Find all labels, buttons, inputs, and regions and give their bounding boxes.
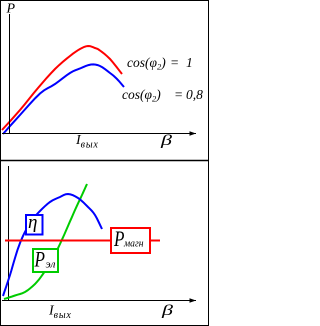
separator line between charts (0, 160, 209, 162)
svg-text:эл: эл (46, 259, 56, 271)
box Pmagn (111, 228, 150, 253)
y-axis (top chart) (9, 14, 11, 133)
box eta (26, 215, 43, 235)
curve green Pel (bottom chart) (4, 184, 87, 299)
frame border (1, 1, 209, 326)
svg-text:P: P (113, 227, 124, 252)
svg-text:=: = (170, 55, 179, 70)
x-axis arrow (bottom chart) (190, 298, 197, 303)
svg-text:1: 1 (186, 55, 193, 70)
svg-text:магн: магн (123, 239, 143, 250)
svg-text:cos(φ2): cos(φ2) (127, 55, 166, 72)
red line Pmagn (5, 240, 160, 242)
x-axis (bottom chart) (2, 300, 196, 302)
x-axis arrow (top chart) (190, 131, 197, 136)
x-axis (top chart) (2, 133, 196, 135)
svg-text:β: β (161, 303, 174, 319)
svg-text:P: P (6, 2, 16, 17)
y-axis (bottom chart) (8, 166, 10, 300)
curve red cos=1 (top chart) (2, 46, 122, 130)
svg-text:0,8: 0,8 (186, 87, 203, 102)
box Pel (33, 249, 58, 272)
svg-text:cos(φ2): cos(φ2) (122, 87, 161, 104)
svg-text:=: = (174, 87, 183, 102)
curve blue eta (bottom chart) (3, 194, 102, 296)
svg-text:β: β (160, 133, 173, 149)
curve blue cos=0.8 (top chart) (3, 64, 124, 134)
svg-text:P: P (34, 248, 45, 273)
svg-text:η: η (28, 212, 37, 233)
